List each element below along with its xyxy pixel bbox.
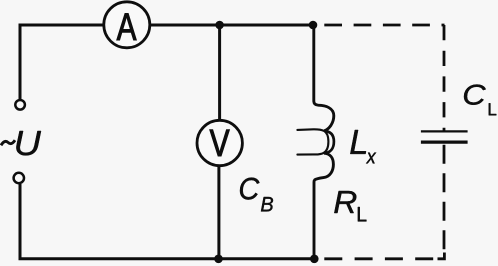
wire dashed bottom-right corner (438, 253, 445, 259)
voltmeter V (197, 120, 242, 165)
wire left-bottom segment (20, 184, 315, 259)
wire top-left segment (20, 25, 103, 99)
wire dashed right rail upper (443, 25, 446, 131)
label Lx (350, 130, 376, 163)
node junction top inductor (309, 21, 318, 30)
wire dashed bottom (324, 257, 434, 260)
terminal upper (15, 100, 25, 110)
capacitor CL plates (421, 131, 468, 142)
wire dashed right rail lower (443, 145, 446, 252)
node junction top voltmeter (215, 21, 224, 30)
source label ~U (1, 131, 41, 155)
label CL (464, 85, 496, 116)
label RL (334, 191, 366, 221)
wire voltmeter rail top (218, 25, 221, 121)
wire voltmeter rail bottom (217, 166, 220, 259)
node junction bottom voltmeter (214, 254, 223, 263)
node junction bottom inductor (310, 254, 319, 263)
ammeter A (104, 2, 150, 48)
wire top middle segment (150, 24, 314, 27)
wire dashed top (324, 24, 444, 27)
inductor Lx coil with rails (297, 25, 334, 259)
terminal lower (14, 173, 24, 183)
label CB (240, 178, 273, 212)
